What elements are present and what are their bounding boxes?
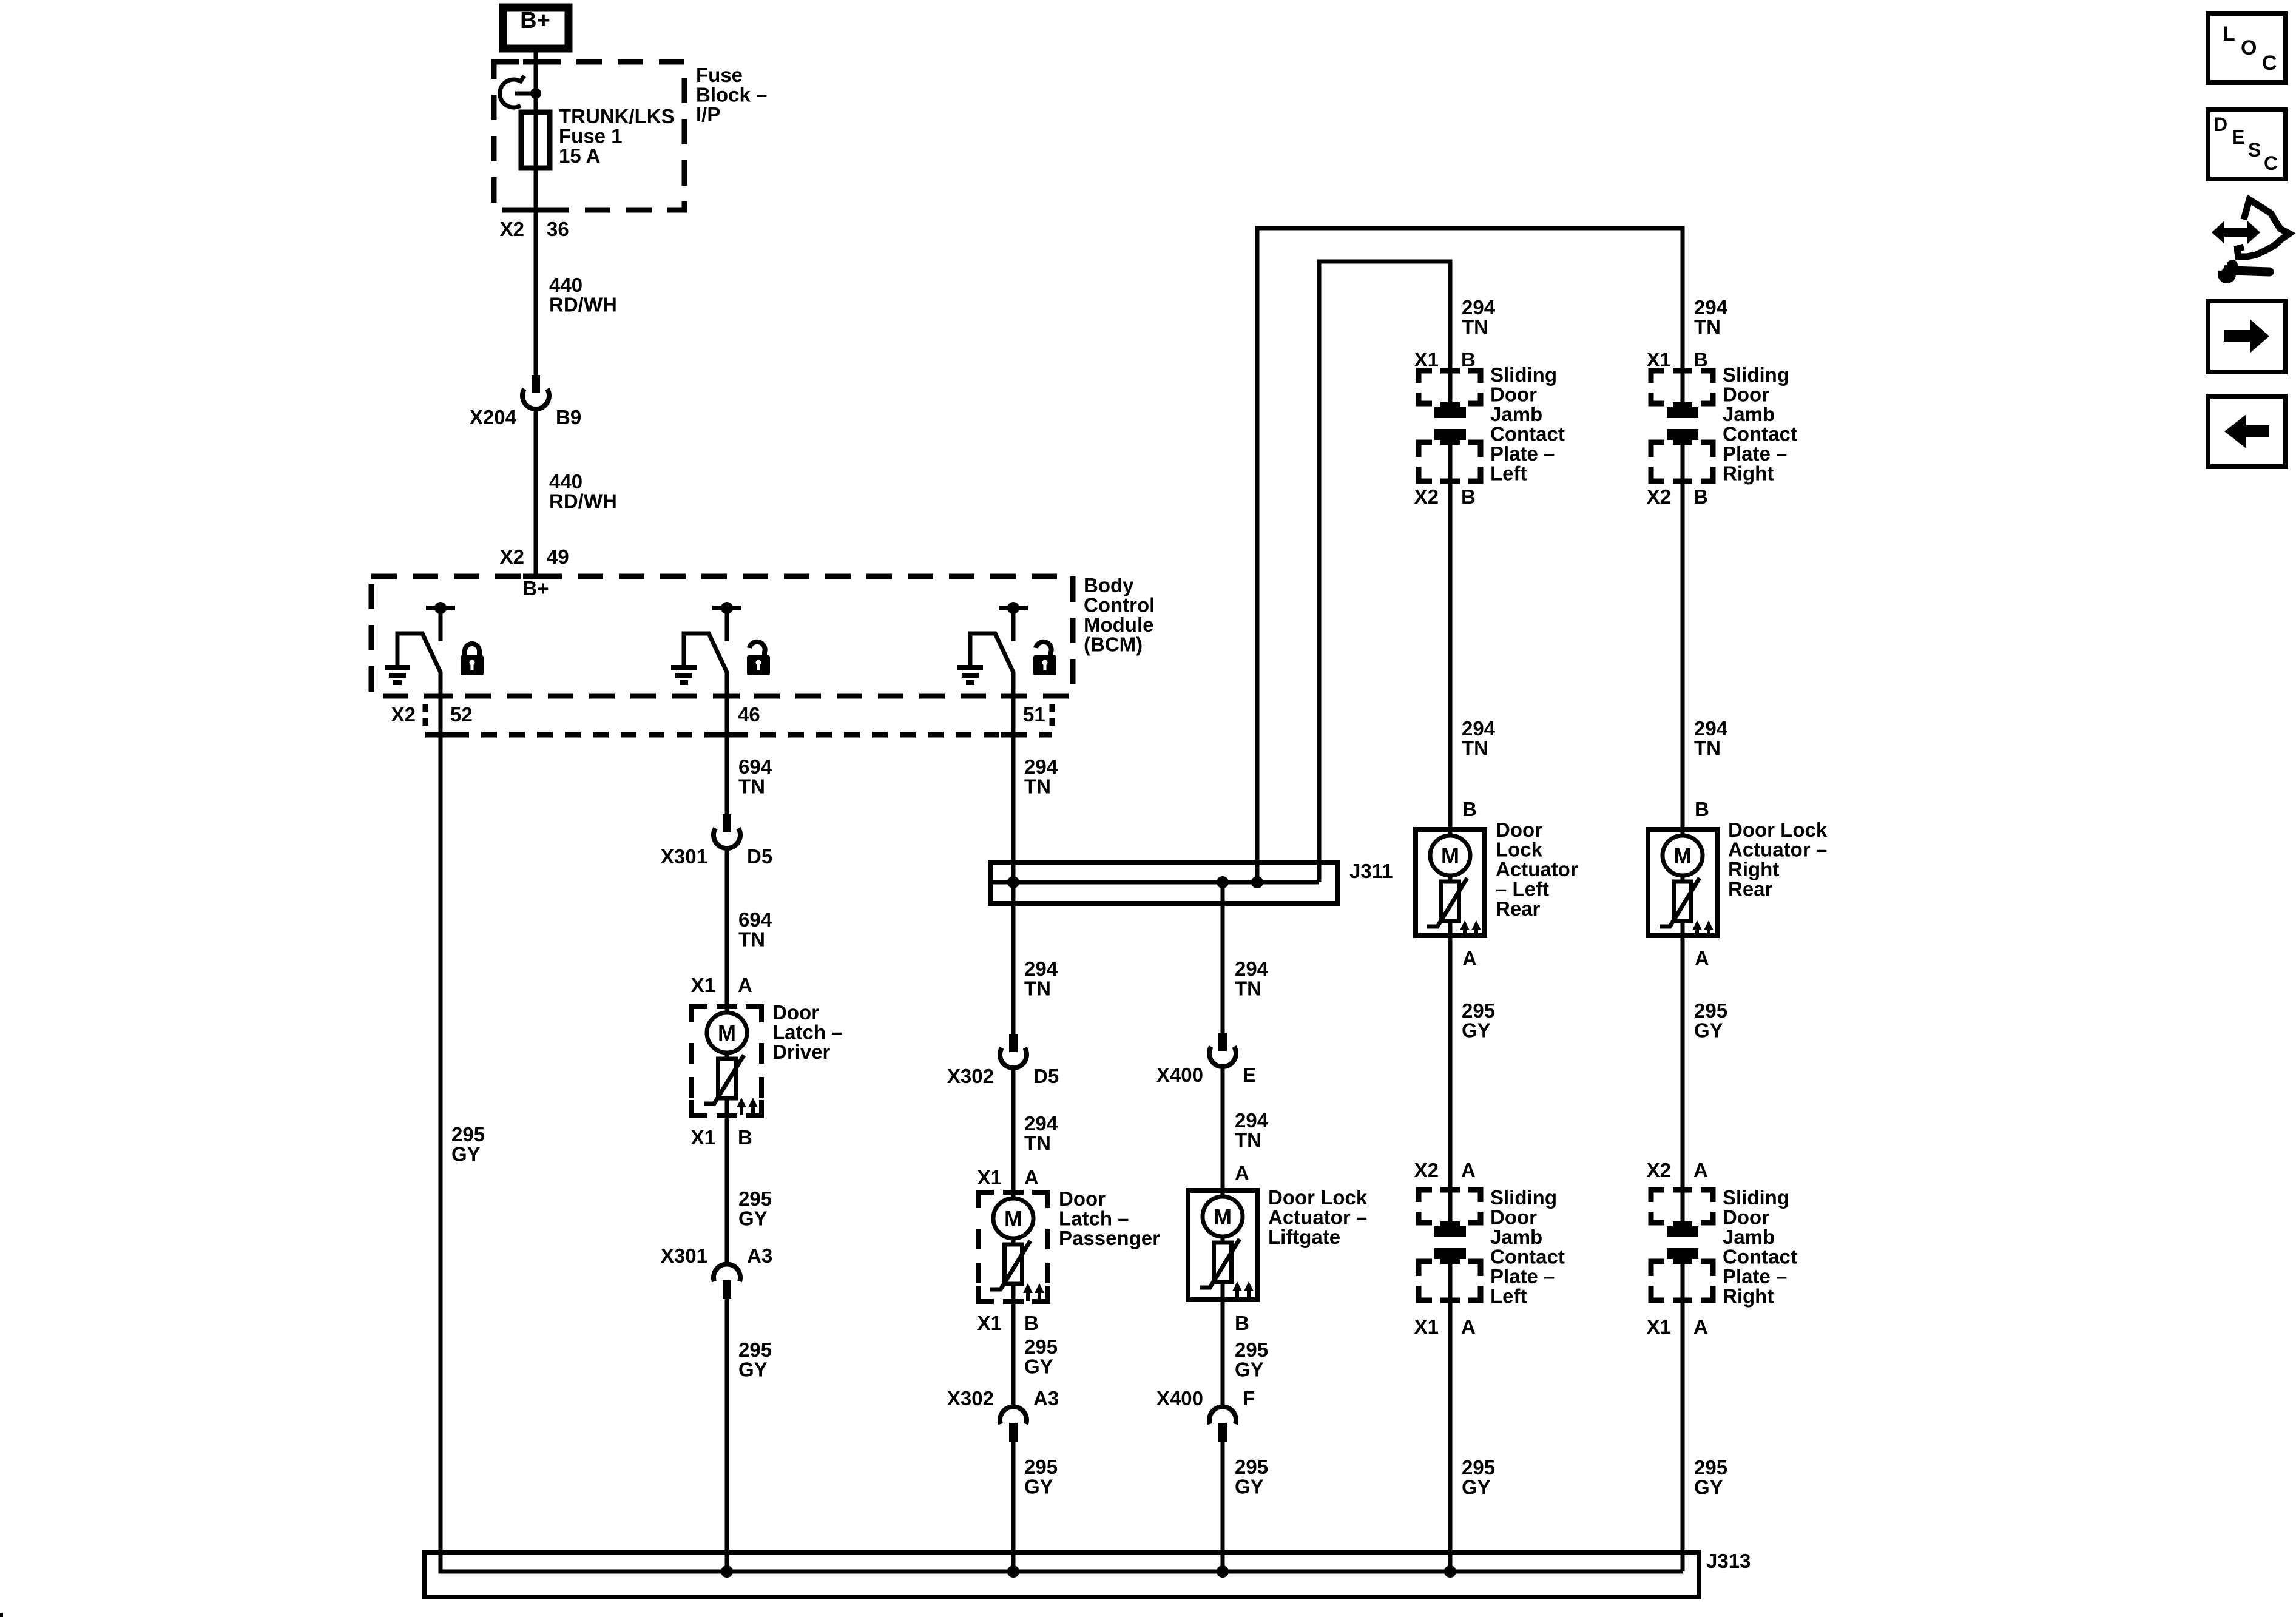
svg-text:B: B <box>738 1126 752 1149</box>
wire 694 TN to door latch driver <box>725 848 729 1014</box>
svg-text:15 A: 15 A <box>559 144 600 167</box>
wire to BCM <box>534 409 538 576</box>
ground symbol <box>385 665 410 670</box>
svg-text:Block –: Block – <box>696 84 767 106</box>
svg-text:Driver: Driver <box>772 1041 831 1063</box>
svg-text:Rear: Rear <box>1496 897 1541 920</box>
svg-text:M: M <box>1214 1204 1232 1229</box>
back arrow icon box <box>2208 396 2285 467</box>
page corner mark <box>0 1613 3 1617</box>
PTC thermistor <box>1442 882 1459 921</box>
svg-text:Door Lock: Door Lock <box>1728 819 1828 841</box>
svg-text:TN: TN <box>1024 977 1051 1000</box>
svg-text:294: 294 <box>1694 296 1728 319</box>
up arrows <box>1235 1289 1239 1299</box>
wire 295 GY from BCM 52 down to J313 <box>439 696 443 1571</box>
svg-text:X302: X302 <box>947 1387 994 1409</box>
up arrows <box>740 1105 743 1115</box>
jamb plate contacts <box>1667 402 1698 418</box>
svg-text:TN: TN <box>1462 316 1488 339</box>
svg-text:Right: Right <box>1728 858 1779 880</box>
jamb plate lower dashed bracket <box>1651 442 1664 457</box>
riser wire to right jamb plate (outer loop) <box>1257 228 1683 882</box>
jamb plate contacts <box>1434 1221 1466 1237</box>
wire 294 TN to right rear actuator <box>1681 482 1685 834</box>
svg-text:M: M <box>1004 1206 1022 1231</box>
svg-text:X2: X2 <box>1647 1159 1671 1181</box>
J311 bus wire <box>990 880 1319 885</box>
svg-text:A: A <box>1461 1159 1476 1181</box>
svg-text:Fuse: Fuse <box>696 64 743 86</box>
motor M <box>1203 1197 1243 1237</box>
jamb plate lower dashed bracket <box>1419 1261 1432 1276</box>
svg-text:52: 52 <box>450 703 473 726</box>
wire below liftgate actuator <box>1221 1300 1225 1407</box>
svg-text:M: M <box>1441 843 1459 868</box>
svg-text:B+: B+ <box>520 8 550 33</box>
svg-text:M: M <box>1673 843 1692 868</box>
svg-text:295: 295 <box>1694 999 1727 1022</box>
svg-text:Jamb: Jamb <box>1490 403 1542 425</box>
BCM switch contact <box>426 606 455 610</box>
svg-text:Plate –: Plate – <box>1490 442 1555 465</box>
Body Control Module dashed box <box>371 576 1073 696</box>
svg-text:Lock: Lock <box>1496 839 1543 861</box>
PTC thermistor <box>718 1059 736 1098</box>
svg-text:RD/WH: RD/WH <box>549 490 617 513</box>
svg-text:B9: B9 <box>556 406 581 428</box>
svg-text:694: 694 <box>738 908 772 931</box>
door lock actuator left rear box <box>1416 829 1485 936</box>
connector X204 B9 <box>532 375 540 393</box>
svg-text:Door: Door <box>1723 383 1769 406</box>
svg-text:O: O <box>2241 36 2257 59</box>
svg-text:295: 295 <box>1462 999 1495 1022</box>
B+ battery terminal box <box>503 7 569 49</box>
junction dot J313 left jamb <box>1444 1565 1456 1578</box>
svg-text:Door: Door <box>1490 383 1537 406</box>
svg-text:A3: A3 <box>1033 1387 1059 1409</box>
wire 694 TN from BCM 46 <box>725 696 729 814</box>
jamb plate upper dashed bracket <box>1651 1190 1664 1202</box>
border crossing ticks <box>523 59 549 65</box>
wire to J313 <box>1448 1301 1453 1571</box>
svg-text:TRUNK/LKS: TRUNK/LKS <box>559 105 675 127</box>
wire 295 GY down <box>1681 936 1685 1190</box>
junction dot J313 liftgate <box>1217 1565 1229 1578</box>
svg-text:E: E <box>2232 126 2244 148</box>
junction dot J311 riser <box>1251 876 1263 888</box>
svg-text:295: 295 <box>738 1338 772 1361</box>
svg-text:Sliding: Sliding <box>1723 1186 1789 1209</box>
svg-text:B: B <box>1461 485 1476 508</box>
svg-text:X1: X1 <box>1647 348 1671 371</box>
svg-text:295: 295 <box>1235 1338 1268 1361</box>
junction dot fuse <box>530 88 541 99</box>
ground symbol <box>957 665 983 670</box>
svg-text:294: 294 <box>1462 717 1496 740</box>
svg-text:46: 46 <box>738 703 760 726</box>
jamb plate upper dashed bracket <box>1419 371 1432 383</box>
svg-text:GY: GY <box>1235 1476 1264 1498</box>
svg-text:295: 295 <box>1462 1456 1495 1479</box>
wire to J313 <box>1221 1439 1225 1571</box>
svg-text:440: 440 <box>549 470 582 493</box>
door lock actuator liftgate box <box>1188 1190 1257 1300</box>
svg-text:49: 49 <box>547 545 569 568</box>
svg-text:694: 694 <box>738 755 772 778</box>
jamb plate upper dashed bracket <box>1651 371 1664 383</box>
svg-text:295: 295 <box>1235 1456 1268 1478</box>
up arrows <box>1695 928 1699 938</box>
svg-text:Door: Door <box>1723 1206 1769 1229</box>
wire 294 TN from BCM 51 <box>1011 696 1016 1034</box>
svg-text:295: 295 <box>1024 1335 1058 1358</box>
wire to liftgate actuator <box>1221 1067 1225 1198</box>
svg-text:Right: Right <box>1723 1285 1774 1308</box>
jamb plate contacts <box>1667 1221 1698 1237</box>
jamb plate contacts <box>1434 402 1466 418</box>
svg-text:J311: J311 <box>1349 860 1393 882</box>
svg-text:GY: GY <box>1024 1476 1053 1498</box>
svg-text:X2: X2 <box>391 703 416 726</box>
svg-text:X2: X2 <box>500 545 524 568</box>
padlock unlocked icon <box>1036 642 1052 655</box>
up arrows <box>1026 1291 1030 1301</box>
svg-text:X301: X301 <box>661 845 707 868</box>
door latch passenger dashed box <box>978 1192 994 1208</box>
svg-text:X2: X2 <box>1647 485 1671 508</box>
svg-text:TN: TN <box>1235 1129 1261 1152</box>
svg-text:A: A <box>1462 947 1477 970</box>
motor M <box>993 1198 1033 1238</box>
svg-text:X2: X2 <box>500 218 524 240</box>
svg-text:B: B <box>1024 1312 1039 1334</box>
svg-text:– Left: – Left <box>1496 878 1549 900</box>
fuse block dashed box <box>494 62 684 210</box>
svg-text:Contact: Contact <box>1723 423 1797 445</box>
J313 splice pack box <box>425 1552 1699 1597</box>
svg-text:X302: X302 <box>947 1065 994 1087</box>
svg-text:TN: TN <box>738 775 765 798</box>
svg-text:GY: GY <box>1694 1019 1723 1042</box>
svg-text:294: 294 <box>1235 957 1269 980</box>
BCM switch contact <box>999 606 1028 610</box>
svg-text:TN: TN <box>1694 316 1721 339</box>
jamb plate upper dashed bracket <box>1419 1190 1432 1202</box>
svg-text:294: 294 <box>1235 1109 1269 1132</box>
connector X302 A3 <box>1000 1406 1027 1424</box>
svg-text:B: B <box>1693 485 1708 508</box>
padlock unlocked icon <box>749 642 765 655</box>
svg-text:X400: X400 <box>1156 1064 1203 1086</box>
ground symbol <box>671 665 697 670</box>
svg-text:M: M <box>718 1021 736 1045</box>
svg-text:Body: Body <box>1084 574 1134 596</box>
svg-text:Door: Door <box>1059 1187 1106 1210</box>
svg-text:Door Lock: Door Lock <box>1268 1186 1368 1209</box>
svg-text:(BCM): (BCM) <box>1084 633 1143 656</box>
svg-text:D5: D5 <box>1033 1065 1059 1087</box>
wire to J313 <box>1681 1301 1685 1571</box>
junction dot J311 passenger <box>1007 876 1019 888</box>
svg-text:B: B <box>1693 348 1708 371</box>
svg-text:X1: X1 <box>691 974 715 996</box>
svg-text:Sliding: Sliding <box>1490 363 1557 386</box>
svg-text:B: B <box>1235 1312 1249 1334</box>
svg-text:B: B <box>1695 798 1709 820</box>
svg-text:TN: TN <box>1694 737 1721 760</box>
BCM switch blade and ground leg <box>397 633 441 696</box>
BCM switch blade and ground leg <box>970 633 1013 696</box>
svg-text:X1: X1 <box>1414 1315 1439 1338</box>
riser wire to left jamb plate (inner loop) <box>1319 262 1450 882</box>
svg-text:GY: GY <box>451 1143 481 1166</box>
svg-text:A: A <box>1695 947 1709 970</box>
svg-text:440: 440 <box>549 274 582 296</box>
svg-text:294: 294 <box>1694 717 1728 740</box>
svg-text:X301: X301 <box>661 1244 707 1267</box>
svg-text:51: 51 <box>1023 703 1045 726</box>
svg-text:X1: X1 <box>691 1126 715 1149</box>
svg-text:Control: Control <box>1084 594 1155 616</box>
svg-text:36: 36 <box>547 218 569 240</box>
BCM switch blade and ground leg <box>684 633 727 696</box>
jamb plate lower dashed bracket <box>1651 1261 1664 1276</box>
svg-text:GY: GY <box>1462 1476 1491 1499</box>
PTC thermistor <box>1674 882 1692 921</box>
motor M <box>1663 836 1703 876</box>
svg-text:Door: Door <box>772 1001 819 1024</box>
svg-text:Contact: Contact <box>1490 423 1565 445</box>
svg-text:GY: GY <box>1462 1019 1491 1042</box>
motor M <box>707 1013 747 1053</box>
connector X400 F <box>1209 1406 1236 1424</box>
svg-text:D: D <box>2213 113 2227 135</box>
svg-text:A: A <box>1461 1315 1476 1338</box>
svg-text:294: 294 <box>1462 296 1496 319</box>
svg-text:Contact: Contact <box>1723 1246 1797 1268</box>
connector X302 D5 <box>1009 1034 1018 1052</box>
svg-text:Sliding: Sliding <box>1490 1186 1557 1209</box>
svg-text:Module: Module <box>1084 613 1153 636</box>
svg-text:Sliding: Sliding <box>1723 363 1789 386</box>
svg-text:Plate –: Plate – <box>1723 1265 1787 1288</box>
svg-text:Rear: Rear <box>1728 878 1773 900</box>
svg-text:TN: TN <box>738 928 765 951</box>
connector X400 E <box>1218 1033 1227 1051</box>
wire B+ to fuse <box>534 51 538 375</box>
svg-text:X1: X1 <box>1414 348 1439 371</box>
svg-text:A: A <box>1693 1159 1708 1181</box>
svg-text:Door: Door <box>1496 819 1542 841</box>
padlock locked icon <box>465 644 479 655</box>
svg-text:295: 295 <box>451 1123 485 1146</box>
svg-text:GY: GY <box>1235 1359 1264 1381</box>
forward arrow icon box <box>2208 301 2285 372</box>
up arrows <box>1463 928 1467 938</box>
svg-text:D5: D5 <box>747 845 772 868</box>
wire to door latch passenger <box>1011 1068 1016 1200</box>
svg-text:Right: Right <box>1723 462 1774 485</box>
svg-text:Left: Left <box>1490 1285 1527 1308</box>
svg-text:A: A <box>1693 1315 1708 1338</box>
svg-text:Plate –: Plate – <box>1490 1265 1555 1288</box>
svg-text:C: C <box>2262 52 2277 75</box>
wire to J313 <box>1011 1439 1016 1571</box>
LOC icon box <box>2208 13 2285 83</box>
svg-text:Actuator –: Actuator – <box>1268 1206 1367 1229</box>
wire to J313 <box>725 1296 729 1571</box>
svg-text:Contact: Contact <box>1490 1246 1565 1268</box>
svg-text:Actuator: Actuator <box>1496 858 1578 880</box>
diagnostic icon double arrow <box>2212 221 2260 244</box>
svg-text:294: 294 <box>1024 1112 1058 1135</box>
svg-text:Jamb: Jamb <box>1723 1226 1775 1248</box>
svg-text:TN: TN <box>1235 977 1261 1000</box>
svg-text:X204: X204 <box>470 406 517 428</box>
svg-text:X1: X1 <box>1647 1315 1671 1338</box>
jamb plate lower dashed bracket <box>1419 442 1432 457</box>
svg-text:Jamb: Jamb <box>1490 1226 1542 1248</box>
fuse TRUNK/LKS Fuse 1 15A body <box>521 112 550 168</box>
svg-text:Latch –: Latch – <box>1059 1207 1129 1230</box>
svg-text:E: E <box>1243 1064 1256 1086</box>
wire 295 GY down <box>1448 936 1453 1190</box>
svg-text:GY: GY <box>1024 1355 1053 1378</box>
svg-text:GY: GY <box>738 1207 768 1230</box>
svg-text:I/P: I/P <box>696 103 720 126</box>
wire 294 TN to left rear actuator <box>1448 482 1453 834</box>
diagnostic icon bent arrow outline <box>2237 200 2289 257</box>
svg-text:TN: TN <box>1462 737 1488 760</box>
svg-text:Actuator –: Actuator – <box>1728 839 1827 861</box>
junction dot J311 liftgate <box>1217 876 1229 888</box>
svg-text:Left: Left <box>1490 462 1527 485</box>
svg-text:294: 294 <box>1024 957 1058 980</box>
svg-text:A: A <box>1235 1162 1249 1184</box>
svg-text:A: A <box>738 974 752 996</box>
svg-text:294: 294 <box>1024 755 1058 778</box>
svg-text:295: 295 <box>738 1187 772 1210</box>
svg-text:Plate –: Plate – <box>1723 442 1787 465</box>
PTC thermistor <box>1005 1244 1022 1284</box>
svg-text:295: 295 <box>1024 1456 1058 1478</box>
svg-text:TN: TN <box>1024 775 1051 798</box>
svg-text:RD/WH: RD/WH <box>549 294 617 316</box>
motor M <box>1430 836 1470 876</box>
J311 splice pack box <box>990 862 1337 903</box>
svg-text:L: L <box>2223 22 2235 46</box>
DESC icon box <box>2208 110 2285 179</box>
diagnostic icon wrench <box>2218 265 2236 283</box>
door latch driver dashed box <box>692 1007 707 1022</box>
svg-text:B: B <box>1461 348 1476 371</box>
svg-text:295: 295 <box>1694 1456 1727 1479</box>
svg-text:Liftgate: Liftgate <box>1268 1226 1340 1248</box>
svg-text:S: S <box>2248 139 2261 161</box>
BCM switch contact <box>712 606 741 610</box>
svg-text:GY: GY <box>738 1359 768 1381</box>
svg-text:J313: J313 <box>1706 1550 1751 1572</box>
svg-text:Latch –: Latch – <box>772 1021 843 1044</box>
connector X301 A3 <box>714 1264 740 1281</box>
junction dot J313 passenger <box>1007 1565 1019 1578</box>
svg-text:B: B <box>1462 798 1477 820</box>
junction dot J313 driver <box>721 1565 733 1578</box>
svg-text:X1: X1 <box>977 1166 1002 1189</box>
svg-text:Jamb: Jamb <box>1723 403 1775 425</box>
J313 bus wire <box>441 1569 1683 1571</box>
svg-text:X2: X2 <box>1414 485 1439 508</box>
svg-text:C: C <box>2264 152 2278 174</box>
svg-text:X400: X400 <box>1156 1387 1203 1409</box>
svg-text:A3: A3 <box>747 1244 772 1267</box>
svg-text:TN: TN <box>1024 1132 1051 1155</box>
svg-text:A: A <box>1024 1166 1039 1189</box>
svg-text:GY: GY <box>1694 1476 1723 1499</box>
svg-text:X1: X1 <box>977 1312 1002 1334</box>
wire below latch <box>725 1116 729 1264</box>
fuse element hook <box>500 76 524 107</box>
wire below latch <box>1011 1301 1016 1407</box>
svg-text:X2: X2 <box>1414 1159 1439 1181</box>
svg-text:Passenger: Passenger <box>1059 1227 1160 1249</box>
svg-text:B+: B+ <box>522 577 549 599</box>
svg-text:F: F <box>1243 1387 1255 1409</box>
wire 294 TN from J311 to liftgate <box>1221 882 1225 1033</box>
PTC thermistor <box>1214 1243 1232 1282</box>
svg-text:Fuse 1: Fuse 1 <box>559 125 623 147</box>
door lock actuator right rear box <box>1648 829 1717 936</box>
svg-text:Door: Door <box>1490 1206 1537 1229</box>
connector X301 D5 <box>723 814 731 832</box>
